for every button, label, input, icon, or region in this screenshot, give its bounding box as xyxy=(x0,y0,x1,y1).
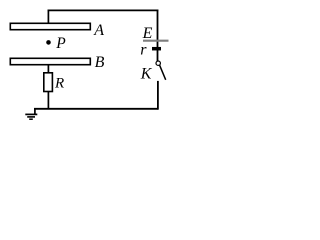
svg-text:K: K xyxy=(140,66,153,83)
battery E long plate xyxy=(143,40,169,42)
wire bottom horizontal xyxy=(34,108,158,110)
ground xyxy=(25,109,37,119)
battery short plate xyxy=(152,47,161,51)
wire connector plate B to resistor xyxy=(47,65,49,73)
resistor R xyxy=(44,73,53,92)
svg-text:R: R xyxy=(54,75,64,91)
wire right vertical upper xyxy=(157,10,159,62)
switch K blade xyxy=(160,65,166,80)
switch K pivot circle xyxy=(156,61,160,65)
point P xyxy=(46,40,51,45)
svg-text:P: P xyxy=(55,35,66,52)
svg-text:r: r xyxy=(140,42,147,59)
svg-text:E: E xyxy=(142,25,153,42)
wire connector plate A to top wire xyxy=(47,10,49,24)
svg-text:A: A xyxy=(93,22,104,39)
svg-text:B: B xyxy=(95,54,105,71)
capacitor plate B xyxy=(10,58,90,64)
wire resistor to bottom wire xyxy=(47,91,49,110)
wire right vertical lower xyxy=(157,81,159,110)
wire top horizontal xyxy=(48,9,159,11)
capacitor plate A xyxy=(10,23,90,29)
